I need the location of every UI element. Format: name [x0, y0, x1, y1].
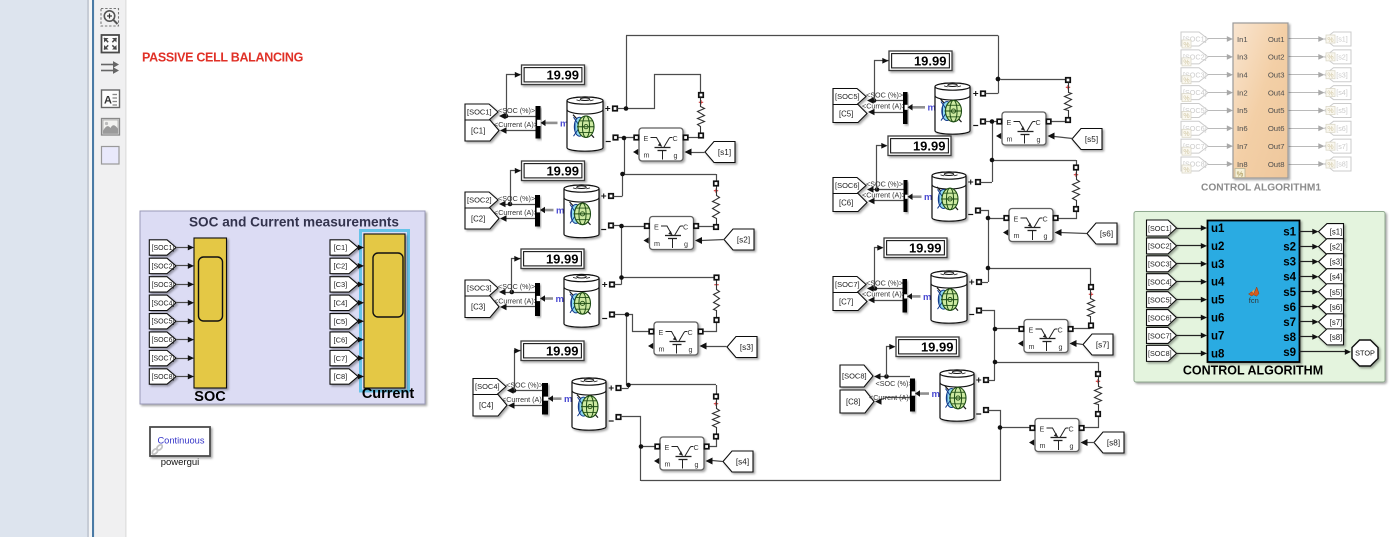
svg-text:g: g	[674, 151, 678, 160]
svg-text:[C3]: [C3]	[471, 303, 485, 312]
svg-text:[C8]: [C8]	[846, 397, 860, 406]
svg-text:[C1]: [C1]	[471, 126, 485, 135]
svg-text:C: C	[1069, 424, 1074, 433]
svg-text:In1: In1	[1237, 35, 1248, 44]
svg-text:In4: In4	[1237, 71, 1248, 80]
svg-text:[SOC4]: [SOC4]	[475, 382, 500, 391]
svg-text:19.99: 19.99	[914, 53, 947, 68]
svg-text:[SOC5]: [SOC5]	[835, 92, 860, 101]
svg-text:19.99: 19.99	[921, 339, 954, 354]
svg-text:g: g	[1044, 232, 1048, 241]
svg-text:u2: u2	[1211, 241, 1224, 253]
svg-text:<Current (A)>: <Current (A)>	[862, 102, 906, 111]
svg-text:[s1]: [s1]	[1330, 228, 1343, 237]
svg-text:m: m	[654, 239, 660, 248]
svg-text:s1: s1	[1283, 227, 1296, 239]
svg-text:[C6]: [C6]	[839, 198, 853, 207]
svg-text:%: %	[1183, 167, 1189, 174]
svg-text:<SOC (%)>: <SOC (%)>	[498, 194, 535, 203]
svg-text:m: m	[644, 151, 650, 160]
svg-text:<Current (A)>: <Current (A)>	[502, 395, 546, 404]
svg-text:<SOC (%)>: <SOC (%)>	[506, 381, 543, 390]
svg-text:m: m	[659, 345, 665, 354]
svg-text:CONTROL ALGORITHM: CONTROL ALGORITHM	[1183, 364, 1323, 378]
svg-text:%: %	[1327, 144, 1333, 151]
svg-text:E: E	[644, 134, 649, 143]
svg-text:%: %	[1183, 60, 1189, 67]
svg-text:fcn: fcn	[1249, 296, 1259, 305]
svg-text:[C4]: [C4]	[334, 298, 348, 307]
svg-text:<Current (A)>: <Current (A)>	[869, 393, 913, 402]
svg-text:g: g	[695, 460, 699, 469]
svg-text:19.99: 19.99	[909, 240, 942, 255]
svg-text:[s8]: [s8]	[1330, 333, 1343, 342]
svg-text:s6: s6	[1283, 302, 1296, 314]
svg-text:A: A	[104, 95, 112, 107]
svg-text:[C1]: [C1]	[334, 243, 348, 252]
svg-text:[C5]: [C5]	[839, 109, 853, 118]
svg-text:STOP: STOP	[1355, 349, 1375, 358]
svg-text:SOC and Current measurements: SOC and Current measurements	[189, 215, 399, 230]
svg-text:m: m	[932, 389, 940, 400]
svg-text:C: C	[1043, 214, 1048, 223]
svg-text:<SOC (%)>: <SOC (%)>	[866, 279, 903, 288]
svg-text:In6: In6	[1237, 124, 1248, 133]
svg-text:[C7]: [C7]	[334, 354, 348, 363]
svg-text:19.99: 19.99	[546, 163, 579, 178]
svg-text:In3: In3	[1237, 53, 1248, 62]
svg-text:[SOC4]: [SOC4]	[1148, 278, 1172, 287]
svg-text:Out5: Out5	[1268, 106, 1285, 115]
svg-text:E: E	[659, 328, 664, 337]
svg-text:C: C	[683, 222, 688, 231]
svg-text:g: g	[1037, 135, 1041, 144]
svg-text:19.99: 19.99	[913, 138, 946, 153]
svg-text:[SOC3]: [SOC3]	[152, 282, 175, 289]
svg-text:C: C	[1036, 118, 1041, 127]
svg-text:u1: u1	[1211, 223, 1225, 235]
svg-text:<Current (A)>: <Current (A)>	[494, 208, 538, 217]
svg-text:[s6]: [s6]	[1100, 229, 1113, 238]
svg-text:[C4]: [C4]	[479, 401, 493, 410]
svg-text:u3: u3	[1211, 259, 1224, 271]
svg-text:m: m	[1029, 342, 1035, 351]
svg-text:<SOC (%)>: <SOC (%)>	[498, 282, 535, 291]
svg-text:%: %	[1237, 169, 1244, 178]
svg-text:Out7: Out7	[1268, 142, 1285, 151]
svg-text:[s7]: [s7]	[1096, 340, 1109, 349]
svg-text:%: %	[1183, 78, 1189, 85]
svg-text:[s2]: [s2]	[1336, 52, 1348, 61]
svg-text:m: m	[556, 205, 564, 216]
svg-text:Out4: Out4	[1268, 88, 1285, 97]
svg-text:Current: Current	[362, 386, 415, 402]
svg-text:[SOC7]: [SOC7]	[1148, 331, 1172, 340]
svg-text:[s7]: [s7]	[1336, 142, 1348, 151]
svg-text:%: %	[1183, 42, 1189, 49]
svg-text:%: %	[1327, 108, 1333, 115]
svg-text:u6: u6	[1211, 313, 1224, 325]
svg-text:[SOC5]: [SOC5]	[152, 319, 175, 326]
svg-text:m: m	[923, 292, 931, 303]
svg-text:E: E	[665, 443, 670, 452]
svg-text:Out8: Out8	[1268, 160, 1285, 169]
svg-text:[s4]: [s4]	[1336, 88, 1348, 97]
svg-text:s3: s3	[1283, 257, 1296, 269]
svg-text:C: C	[673, 134, 678, 143]
svg-text:[s1]: [s1]	[1336, 35, 1348, 44]
svg-text:E: E	[654, 222, 659, 231]
svg-text:<Current (A)>: <Current (A)>	[494, 120, 538, 129]
svg-text:[s5]: [s5]	[1330, 288, 1343, 297]
svg-text:[s1]: [s1]	[718, 148, 731, 157]
svg-text:s2: s2	[1283, 242, 1296, 254]
svg-text:[C2]: [C2]	[471, 214, 485, 223]
svg-text:[SOC2]: [SOC2]	[1148, 242, 1172, 251]
svg-text:[s3]: [s3]	[1330, 258, 1343, 267]
svg-text:[SOC5]: [SOC5]	[1148, 295, 1172, 304]
svg-text:[SOC1]: [SOC1]	[152, 245, 175, 252]
svg-text:m: m	[1014, 231, 1020, 240]
svg-text:<SOC (%)>: <SOC (%)>	[876, 379, 913, 388]
svg-text:[s8]: [s8]	[1107, 438, 1120, 447]
svg-text:In5: In5	[1237, 106, 1248, 115]
svg-text:C: C	[694, 443, 699, 452]
svg-text:%: %	[1183, 95, 1189, 102]
svg-text:g: g	[684, 240, 688, 249]
svg-text:u8: u8	[1211, 348, 1225, 360]
svg-text:PASSIVE CELL BALANCING: PASSIVE CELL BALANCING	[142, 51, 303, 65]
svg-text:In2: In2	[1237, 88, 1248, 97]
svg-text:[SOC7]: [SOC7]	[152, 356, 175, 363]
svg-text:%: %	[1183, 113, 1189, 120]
svg-text:g: g	[689, 345, 693, 354]
svg-text:[SOC6]: [SOC6]	[152, 337, 175, 344]
svg-text:In8: In8	[1237, 160, 1248, 169]
svg-text:m: m	[1007, 135, 1013, 144]
svg-text:<Current (A)>: <Current (A)>	[862, 191, 906, 200]
svg-text:[C6]: [C6]	[334, 335, 348, 344]
svg-text:[s8]: [s8]	[1336, 160, 1348, 169]
svg-text:<SOC (%)>: <SOC (%)>	[866, 91, 903, 100]
svg-text:m: m	[1040, 441, 1046, 450]
svg-text:[C7]: [C7]	[839, 297, 853, 306]
svg-text:[s5]: [s5]	[1085, 135, 1098, 144]
svg-text:u4: u4	[1211, 277, 1225, 289]
svg-text:[s6]: [s6]	[1336, 124, 1348, 133]
svg-text:%: %	[1327, 126, 1333, 133]
svg-text:E: E	[1040, 424, 1045, 433]
svg-text:u5: u5	[1211, 295, 1225, 307]
svg-text:[SOC1]: [SOC1]	[467, 108, 492, 117]
svg-text:<Current (A)>: <Current (A)>	[494, 297, 538, 306]
svg-text:s5: s5	[1283, 287, 1296, 299]
svg-text:In7: In7	[1237, 142, 1248, 151]
svg-text:Continuous: Continuous	[157, 436, 204, 446]
svg-text:u7: u7	[1211, 330, 1224, 342]
svg-text:powergui: powergui	[161, 457, 200, 468]
svg-text:[C8]: [C8]	[334, 372, 348, 381]
svg-text:%: %	[1327, 73, 1333, 80]
svg-text:[SOC3]: [SOC3]	[467, 284, 492, 293]
svg-text:[SOC7]: [SOC7]	[835, 280, 860, 289]
svg-text:[C2]: [C2]	[334, 262, 348, 271]
svg-text:[SOC2]: [SOC2]	[467, 196, 492, 205]
svg-text:19.99: 19.99	[546, 251, 579, 266]
svg-text:%: %	[1327, 55, 1333, 62]
svg-text:E: E	[1014, 214, 1019, 223]
svg-text:g: g	[1070, 442, 1074, 451]
svg-text:Out6: Out6	[1268, 124, 1285, 133]
svg-text:m: m	[564, 394, 572, 405]
svg-text:[C5]: [C5]	[334, 317, 348, 326]
svg-text:Out1: Out1	[1268, 35, 1285, 44]
svg-text:SOC: SOC	[194, 389, 226, 405]
svg-text:Out2: Out2	[1268, 53, 1285, 62]
svg-text:<SOC (%)>: <SOC (%)>	[498, 106, 535, 115]
svg-text:[s4]: [s4]	[736, 457, 749, 466]
svg-text:[SOC8]: [SOC8]	[842, 372, 867, 381]
svg-text:[s7]: [s7]	[1330, 318, 1343, 327]
svg-text:C: C	[1058, 325, 1063, 334]
svg-text:Out3: Out3	[1268, 71, 1285, 80]
svg-text:[SOC8]: [SOC8]	[1148, 349, 1172, 358]
svg-text:m: m	[924, 192, 932, 203]
svg-text:s7: s7	[1283, 317, 1296, 329]
svg-text:g: g	[1059, 343, 1063, 352]
svg-text:s9: s9	[1283, 347, 1296, 359]
svg-text:19.99: 19.99	[546, 343, 579, 358]
svg-text:[SOC8]: [SOC8]	[152, 374, 175, 381]
svg-text:<SOC (%)>: <SOC (%)>	[866, 180, 903, 189]
svg-text:E: E	[1007, 118, 1012, 127]
svg-text:[SOC4]: [SOC4]	[152, 300, 175, 307]
svg-text:%: %	[1327, 90, 1333, 97]
svg-text:[s3]: [s3]	[740, 343, 753, 352]
svg-text:C: C	[688, 328, 693, 337]
svg-text:[s2]: [s2]	[1330, 243, 1343, 252]
svg-text:CONTROL ALGORITHM1: CONTROL ALGORITHM1	[1201, 183, 1321, 194]
svg-text:[SOC2]: [SOC2]	[152, 263, 175, 270]
svg-text:[s3]: [s3]	[1336, 70, 1348, 79]
svg-text:%: %	[1183, 131, 1189, 138]
svg-text:[s6]: [s6]	[1330, 303, 1343, 312]
svg-text:%: %	[1327, 162, 1333, 169]
svg-text:[SOC6]: [SOC6]	[835, 181, 860, 190]
svg-text:<Current (A)>: <Current (A)>	[862, 290, 906, 299]
svg-text:[SOC3]: [SOC3]	[1148, 260, 1172, 269]
svg-text:E: E	[1029, 325, 1034, 334]
svg-text:[s2]: [s2]	[737, 235, 750, 244]
svg-text:s8: s8	[1283, 332, 1296, 344]
svg-text:[SOC1]: [SOC1]	[1148, 224, 1172, 233]
svg-text:%: %	[1183, 149, 1189, 156]
svg-text:19.99: 19.99	[546, 67, 579, 82]
svg-text:s4: s4	[1283, 272, 1296, 284]
svg-text:[s4]: [s4]	[1330, 273, 1343, 282]
svg-text:[s5]: [s5]	[1336, 106, 1348, 115]
svg-text:[SOC6]: [SOC6]	[1148, 313, 1172, 322]
svg-text:%: %	[1327, 37, 1333, 44]
svg-text:[C3]: [C3]	[334, 280, 348, 289]
svg-text:m: m	[556, 294, 564, 305]
svg-text:m: m	[665, 460, 671, 469]
